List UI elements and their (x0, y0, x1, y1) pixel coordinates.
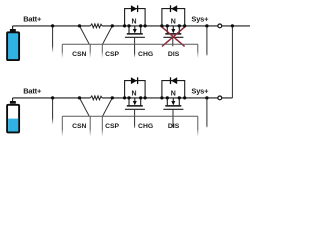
diode D4 body diode of DIS FET (bottom) (162, 77, 185, 98)
svg-text:CSP: CSP (105, 123, 119, 130)
fault cross X over DIS FET (top) (162, 27, 185, 46)
wire : Sys+ interconnect to bottom rail (231, 26, 233, 98)
svg-text:CSP: CSP (105, 51, 119, 58)
wire : load stub (bottom) (206, 98, 208, 127)
resistor Rsense (top) (90, 24, 102, 28)
wire : stub below junction (top) (52, 26, 54, 53)
svg-text:CSN: CSN (72, 51, 86, 58)
resistor Rsense (bottom) (90, 96, 102, 100)
wire : Q3 gate to CHG pin (bottom) (134, 110, 136, 128)
terminal open circle (bottom) (218, 96, 222, 100)
battery BT1 (fully charged cell) (7, 26, 19, 60)
terminal open circle (top) (218, 24, 222, 28)
svg-text:Sys+: Sys+ (191, 15, 209, 24)
svg-text:CHG: CHG (138, 51, 153, 58)
svg-text:DIS: DIS (168, 51, 180, 58)
battery BT2 (half charged cell) (7, 98, 19, 133)
svg-text:Batt+: Batt+ (23, 86, 42, 95)
transistor Q3 CHG N-FET (bottom) (125, 98, 145, 109)
svg-text:N: N (131, 18, 136, 25)
wire : stub below junction (bottom) (52, 98, 54, 124)
svg-text:N: N (171, 90, 176, 97)
wire : load stub (top) (206, 26, 208, 56)
transistor Q1 CHG N-FET (top) (125, 26, 145, 37)
svg-text:CHG: CHG (138, 123, 153, 130)
svg-text:DIS: DIS (168, 123, 180, 130)
wire : top rail (13, 25, 250, 27)
wire : CSP sense tap (top) (103, 26, 113, 44)
svg-text:N: N (131, 90, 136, 97)
transistor Q4 DIS N-FET (bottom) (163, 98, 183, 109)
IC U2 protector box outline (bottom) (62, 116, 198, 136)
wire : Q1 gate to CHG pin (top) (134, 38, 136, 57)
svg-text:Batt+: Batt+ (23, 15, 42, 24)
wire : CSN sense tap (bottom) (80, 98, 90, 116)
svg-text:CSN: CSN (72, 123, 86, 130)
IC U1 protector box outline (top) (62, 44, 198, 58)
wire : CSP sense tap (bottom) (103, 98, 113, 116)
svg-text:Sys+: Sys+ (191, 87, 209, 96)
wire : CSN sense tap (top) (80, 26, 90, 44)
diode D3 body diode of CHG FET (bottom) (125, 77, 146, 98)
svg-text:N: N (171, 18, 176, 25)
wire : Q4 gate to DIS pin (bottom) (172, 110, 174, 128)
diode D2 body diode of DIS FET (top) (162, 5, 185, 26)
transistor Q2 DIS N-FET (top) (163, 26, 183, 37)
wire : bottom rail (13, 97, 233, 99)
junction dots (bottom rail) (51, 96, 209, 99)
diode D1 body diode of CHG FET (top) (125, 5, 146, 26)
junction dots (top rail) (51, 24, 234, 27)
wire : Q2 gate to DIS pin (top) (172, 38, 174, 46)
